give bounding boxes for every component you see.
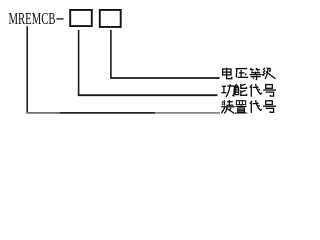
label 功能代号 (function code) (221, 84, 234, 97)
wire: vertical from text down (device code leader) (26, 26, 28, 113)
designation box 2 (voltage level) (100, 10, 121, 27)
wire: bottom horizontal leader to 装置代号 (grey/black segments) (26, 112, 60, 114)
wire: horizontal leader to 功能代号 (78, 94, 218, 96)
wire: vertical from box 2 (110, 30, 112, 78)
label 电压等级 (voltage level) (223, 68, 232, 79)
designation box 1 (function code) (70, 10, 92, 26)
wire: vertical from box 1 (78, 30, 80, 96)
label 装置代号 (device code) (221, 100, 235, 114)
svg-text:MREMCB: MREMCB (9, 9, 56, 28)
wire: horizontal leader to 电压等级 (110, 77, 219, 79)
